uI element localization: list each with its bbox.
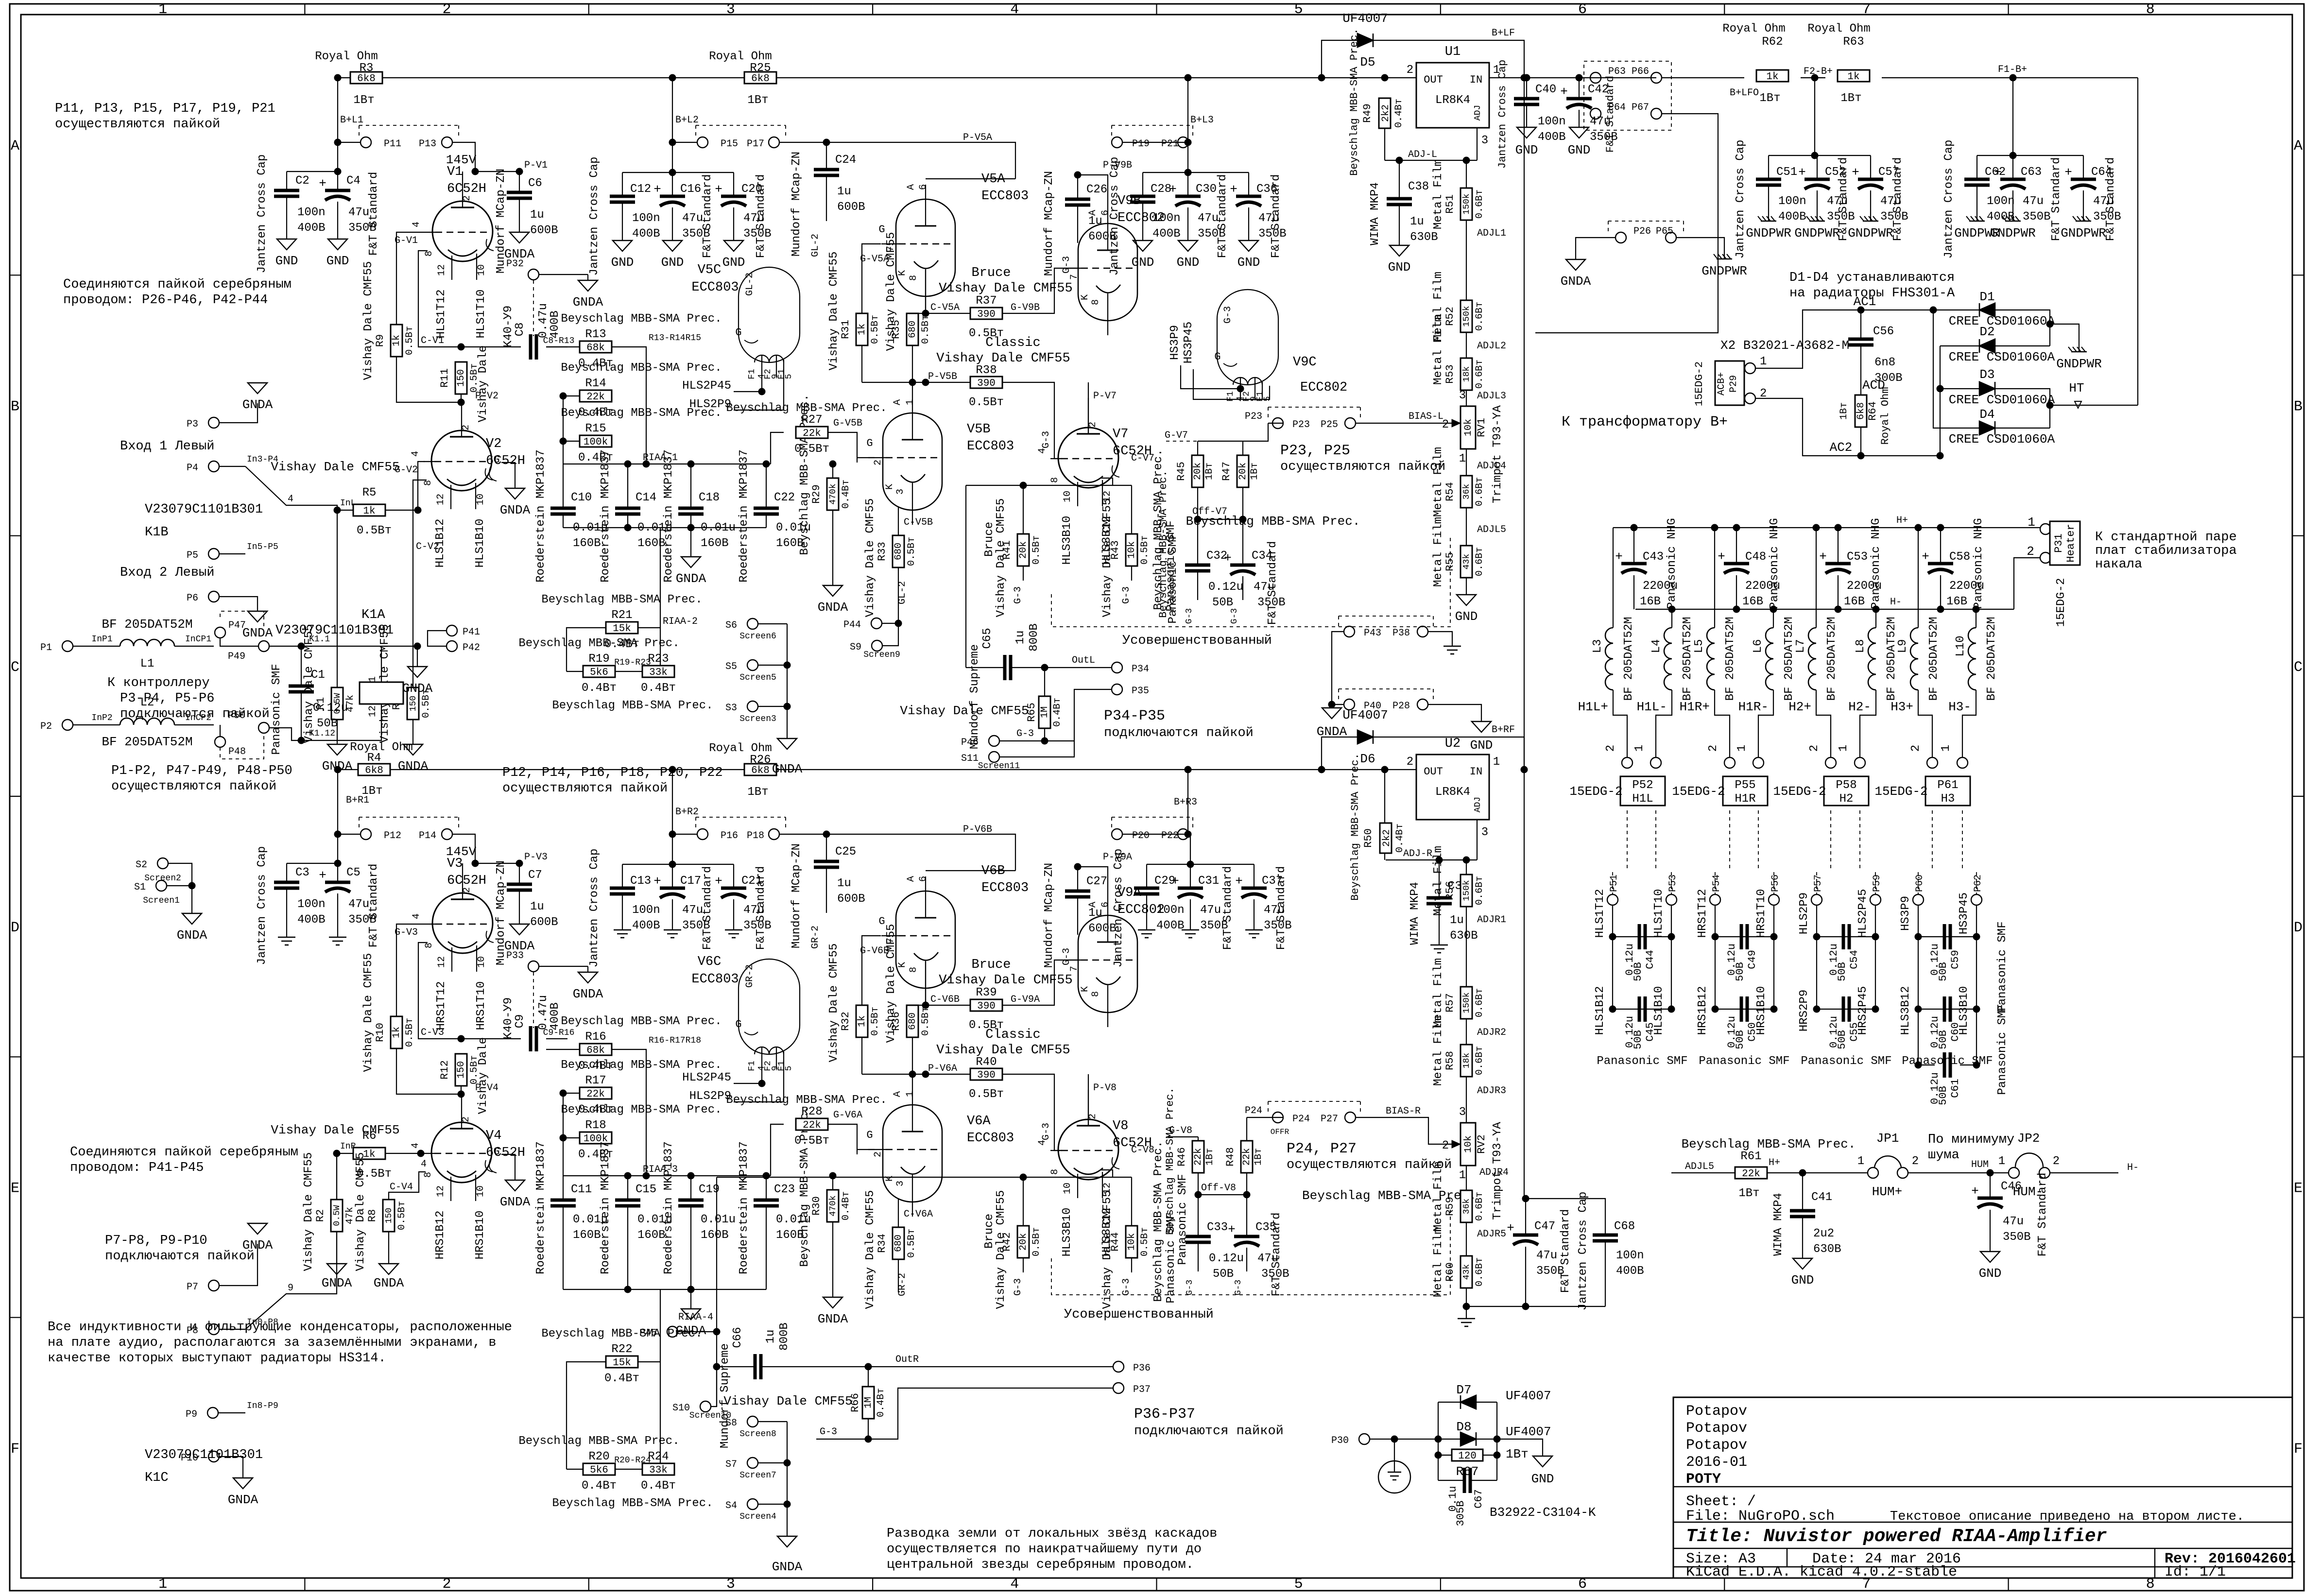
- svg-text:390: 390: [977, 1070, 996, 1081]
- svg-text:R23: R23: [648, 652, 669, 666]
- svg-text:C26: C26: [1086, 183, 1107, 196]
- svg-text:P7-P8, P9-P10: P7-P8, P9-P10: [105, 1234, 207, 1248]
- resistor R11: [455, 362, 467, 394]
- svg-text:Jantzen Cross Cap: Jantzen Cross Cap: [1577, 1192, 1590, 1311]
- resistor R49: [1379, 98, 1391, 128]
- capacitor C39: [1439, 860, 1440, 898]
- svg-text:Panasonic NHG: Panasonic NHG: [1870, 518, 1883, 609]
- svg-text:ADJR5: ADJR5: [1477, 1229, 1506, 1240]
- svg-text:Beyschlag MBB-SMA Prec.: Beyschlag MBB-SMA Prec.: [552, 699, 713, 712]
- svg-text:Mundorf MCap-ZN: Mundorf MCap-ZN: [790, 152, 803, 257]
- svg-text:R27: R27: [801, 413, 822, 427]
- capacitor C29: [1146, 864, 1147, 888]
- svg-text:G-V9A: G-V9A: [1011, 994, 1040, 1005]
- wire P14 to anode node: [452, 834, 475, 863]
- svg-text:10: 10: [1062, 491, 1073, 502]
- svg-text:P57: P57: [1813, 875, 1824, 892]
- svg-text:Metal Film: Metal Film: [1432, 447, 1445, 517]
- diode D6: [1322, 737, 1358, 770]
- svg-text:Royal Ohm: Royal Ohm: [1722, 22, 1786, 35]
- svg-text:D7: D7: [1456, 1383, 1471, 1397]
- svg-text:WIMA MKP4: WIMA MKP4: [1409, 882, 1422, 945]
- svg-text:Mundorf MCap-ZN: Mundorf MCap-ZN: [1043, 171, 1056, 276]
- svg-text:R34: R34: [876, 1234, 888, 1253]
- wire U1 out to P66: [1489, 77, 1656, 78]
- svg-text:0.01u: 0.01u: [701, 1213, 736, 1226]
- svg-text:S5: S5: [725, 661, 737, 672]
- svg-text:A: A: [11, 138, 19, 154]
- svg-text:JP2: JP2: [2017, 1131, 2040, 1146]
- svg-text:C46: C46: [2001, 1180, 2022, 1193]
- svg-text:V6C: V6C: [698, 955, 722, 969]
- pin P46: [989, 736, 999, 746]
- svg-text:6: 6: [918, 184, 929, 190]
- svg-text:680: 680: [907, 1013, 918, 1030]
- wire H1L- to pin: [1656, 707, 1672, 757]
- wire P57 column: [1816, 905, 1817, 1009]
- svg-text:0.47u: 0.47u: [537, 303, 550, 338]
- capacitor C11: [550, 1199, 576, 1202]
- svg-text:12: 12: [436, 264, 447, 276]
- capacitor C15: [627, 1176, 628, 1200]
- grid wire V6A: [857, 1149, 875, 1150]
- svg-text:D3: D3: [1979, 367, 1994, 382]
- svg-text:G-V9B: G-V9B: [1011, 302, 1040, 313]
- capacitor C55: [1817, 1009, 1875, 1010]
- svg-text:100n: 100n: [632, 904, 660, 917]
- svg-text:B32922-C3104-K: B32922-C3104-K: [1490, 1505, 1596, 1520]
- svg-text:BF 205DAT52M: BF 205DAT52M: [1783, 617, 1796, 701]
- pin P54: [1715, 872, 1716, 894]
- svg-text:GNDA: GNDA: [402, 681, 433, 696]
- anode wire V9A: [1078, 867, 1108, 901]
- wire OutR: [762, 1366, 1113, 1367]
- svg-text:G-3: G-3: [1013, 586, 1024, 604]
- junction D5 tap: [1318, 74, 1325, 82]
- svg-text:S10: S10: [672, 1403, 690, 1414]
- pin P10: [208, 1451, 219, 1462]
- svg-text:HLS1B12: HLS1B12: [1594, 986, 1607, 1035]
- svg-text:ECC803: ECC803: [981, 189, 1029, 204]
- cathode wire C-V7: [1101, 478, 1132, 485]
- svg-text:Id: 1/1: Id: 1/1: [2165, 1564, 2226, 1580]
- resistor R32: [856, 1005, 868, 1037]
- wire R13 out: [612, 347, 646, 464]
- svg-text:RIAA-2: RIAA-2: [663, 616, 698, 627]
- svg-text:C47: C47: [1534, 1220, 1555, 1233]
- svg-text:Potapov: Potapov: [1686, 1437, 1747, 1454]
- pin S11: [989, 752, 999, 762]
- resistor R64: [1855, 395, 1867, 427]
- svg-text:P51: P51: [1609, 875, 1620, 892]
- svg-text:D8: D8: [1456, 1420, 1471, 1434]
- svg-text:R51: R51: [1444, 194, 1456, 214]
- svg-text:V23079C1101B301: V23079C1101B301: [145, 502, 263, 517]
- svg-text:P63: P63: [1608, 66, 1626, 77]
- svg-text:R24: R24: [648, 1450, 669, 1463]
- svg-text:CREE CSD01060A: CREE CSD01060A: [1949, 314, 2055, 328]
- svg-text:GNDPWR: GNDPWR: [1794, 226, 1840, 240]
- svg-text:0.6Вт: 0.6Вт: [1474, 1192, 1485, 1221]
- svg-text:P48: P48: [228, 746, 246, 757]
- svg-text:22k: 22k: [586, 392, 605, 403]
- svg-text:Royal Ohm: Royal Ohm: [1879, 387, 1891, 445]
- svg-text:OFFR: OFFR: [1271, 1128, 1289, 1136]
- wire G-3 to R66: [816, 1439, 868, 1440]
- resistor R12: [455, 1054, 467, 1086]
- dashed pair P47 P49: [220, 611, 264, 627]
- svg-text:C13: C13: [630, 875, 651, 888]
- svg-text:D4: D4: [1979, 407, 1994, 422]
- svg-text:100n: 100n: [1987, 195, 2015, 208]
- capacitor C40: [1526, 78, 1527, 99]
- svg-text:C30: C30: [1196, 183, 1217, 196]
- pin P6: [208, 591, 219, 602]
- svg-text:R20: R20: [588, 1450, 609, 1463]
- svg-text:GNDA: GNDA: [228, 1493, 258, 1507]
- svg-text:Screen2: Screen2: [144, 874, 181, 883]
- svg-text:Bruce: Bruce: [983, 522, 996, 557]
- junction K1.1: [298, 643, 305, 650]
- svg-text:2: 2: [1912, 1155, 1919, 1168]
- svg-text:ADJL5: ADJL5: [1685, 1161, 1714, 1172]
- dashed box around P63-P67: [1584, 61, 1671, 130]
- svg-text:GND: GND: [1177, 255, 1200, 270]
- svg-text:150: 150: [456, 369, 467, 387]
- svg-text:10: 10: [475, 494, 486, 505]
- svg-text:C67: C67: [1473, 1489, 1485, 1509]
- svg-text:HLS2P9: HLS2P9: [689, 398, 731, 411]
- wire Off-V8 row: [1198, 1173, 1199, 1195]
- svg-text:H1L-: H1L-: [1637, 700, 1667, 714]
- svg-text:1: 1: [2028, 515, 2035, 530]
- pin P37: [1113, 1383, 1124, 1393]
- svg-text:BF 205DAT52M: BF 205DAT52M: [1622, 617, 1635, 701]
- svg-text:C11: C11: [571, 1183, 592, 1196]
- svg-text:Vishay Dale CMF55: Vishay Dale CMF55: [362, 953, 375, 1072]
- svg-text:Screen5: Screen5: [739, 673, 776, 683]
- svg-text:G: G: [866, 1129, 873, 1141]
- svg-text:BF 205DAT52M: BF 205DAT52M: [102, 617, 192, 632]
- svg-text:160B: 160B: [573, 537, 601, 550]
- capacitor C1: [301, 646, 302, 686]
- svg-text:H1R+: H1R+: [1680, 700, 1710, 714]
- svg-text:HLS2P45: HLS2P45: [682, 379, 731, 393]
- svg-text:Beyschlag MBB-SMA Prec.: Beyschlag MBB-SMA Prec.: [561, 1059, 722, 1072]
- svg-text:16B: 16B: [1946, 595, 1967, 608]
- capacitor C33: [1198, 1195, 1199, 1236]
- svg-text:R13: R13: [585, 328, 606, 341]
- svg-text:D1-D4 устанавливаются: D1-D4 устанавливаются: [1789, 271, 1955, 285]
- ground under caps: [286, 198, 287, 239]
- resistor R44: [1131, 1177, 1132, 1226]
- svg-text:16B: 16B: [1742, 595, 1763, 608]
- svg-text:160B: 160B: [701, 1229, 729, 1242]
- decoupling pins right: [1187, 78, 1188, 142]
- svg-text:8: 8: [2146, 1, 2155, 18]
- wire decoupling rail 3: [1187, 142, 1188, 172]
- svg-text:P38: P38: [1392, 628, 1410, 639]
- svg-text:50B: 50B: [1632, 962, 1644, 981]
- svg-text:HLS1T12: HLS1T12: [435, 290, 448, 339]
- svg-text:8: 8: [423, 1172, 434, 1178]
- svg-text:16B: 16B: [1844, 595, 1865, 608]
- svg-text:6: 6: [1578, 1, 1587, 18]
- svg-text:10: 10: [476, 264, 487, 276]
- svg-text:Vishay Dale CMF55: Vishay Dale CMF55: [302, 1152, 315, 1271]
- svg-text:D6: D6: [1360, 752, 1375, 766]
- wire P26 to GNDA: [1576, 238, 1615, 259]
- svg-text:0.4Вт: 0.4Вт: [1393, 99, 1405, 128]
- svg-text:подключаются пайкой: подключаются пайкой: [1104, 726, 1254, 740]
- svg-text:Beyschlag MBB-SMA Prec.: Beyschlag MBB-SMA Prec.: [561, 1015, 722, 1028]
- svg-text:Screen3: Screen3: [739, 714, 776, 724]
- svg-text:+: +: [1852, 165, 1859, 180]
- cathode C-V6A: [898, 1198, 899, 1227]
- svg-text:JP1: JP1: [1876, 1131, 1899, 1146]
- svg-text:50B: 50B: [1836, 1030, 1848, 1049]
- svg-text:G-3: G-3: [1185, 608, 1194, 624]
- wire R38 to V7 grid: [1002, 382, 1062, 459]
- capacitor C63: [2012, 155, 2013, 179]
- wire HT to vertical: [2050, 405, 2138, 406]
- svg-text:V6A: V6A: [967, 1114, 991, 1129]
- svg-text:P49: P49: [228, 651, 245, 662]
- junction AC1 C56: [1857, 307, 1865, 314]
- svg-text:+: +: [1971, 1184, 1979, 1199]
- svg-text:P5: P5: [187, 550, 198, 561]
- svg-text:Beyschlag MBB-SMA Prec.: Beyschlag MBB-SMA Prec.: [726, 1094, 887, 1107]
- capacitor C21: [733, 864, 734, 888]
- svg-text:22k: 22k: [586, 1089, 605, 1100]
- resistor R42: [1023, 1177, 1024, 1226]
- svg-text:0.5Вт: 0.5Вт: [870, 1007, 881, 1036]
- svg-text:F&T Standard: F&T Standard: [367, 864, 380, 948]
- svg-text:CREE CSD01060A: CREE CSD01060A: [1949, 393, 2055, 407]
- dual triode V9A ECC802: [1078, 915, 1137, 1013]
- screen pins to GNDA: [787, 624, 788, 738]
- svg-text:C7: C7: [528, 869, 542, 882]
- wire p-v5b row: [862, 382, 970, 383]
- svg-text:15EDG-2: 15EDG-2: [1569, 784, 1622, 799]
- capacitor C16: [672, 172, 673, 196]
- svg-text:P66: P66: [1632, 66, 1649, 77]
- svg-text:8: 8: [908, 967, 919, 973]
- svg-text:3: 3: [726, 1576, 735, 1593]
- svg-text:HRS1B12: HRS1B12: [434, 1211, 447, 1260]
- svg-text:GND: GND: [661, 255, 684, 270]
- svg-text:Beyschlag MBB-SMA Prec.: Beyschlag MBB-SMA Prec.: [561, 361, 722, 375]
- svg-text:осуществляются пайкой: осуществляются пайкой: [111, 779, 276, 794]
- svg-text:5k6: 5k6: [590, 667, 608, 678]
- svg-text:1: 1: [1760, 355, 1767, 368]
- svg-text:1: 1: [1998, 1155, 2005, 1168]
- svg-text:F&T Standard: F&T Standard: [1837, 157, 1850, 241]
- svg-text:OutR: OutR: [895, 1354, 919, 1365]
- svg-text:BF 205DAT52M: BF 205DAT52M: [1724, 617, 1737, 701]
- svg-text:100k: 100k: [584, 437, 608, 448]
- svg-text:осуществляются пайкой: осуществляются пайкой: [1287, 1158, 1452, 1172]
- svg-text:C50: C50: [1746, 1022, 1758, 1042]
- anode stub lower tube: [461, 1094, 462, 1095]
- svg-text:HRS1T10: HRS1T10: [475, 981, 488, 1030]
- capacitor C7: [519, 863, 520, 884]
- svg-text:Mundorf MCap-ZN: Mundorf MCap-ZN: [790, 843, 803, 948]
- svg-text:Mundorf Supreme: Mundorf Supreme: [968, 644, 981, 749]
- svg-text:R14: R14: [585, 377, 606, 390]
- svg-text:400B: 400B: [632, 919, 660, 932]
- svg-text:47u: 47u: [1200, 904, 1221, 917]
- svg-text:+: +: [1507, 1221, 1514, 1236]
- svg-text:1k: 1k: [391, 1027, 402, 1038]
- resistor R1: [337, 510, 338, 687]
- svg-text:6C52H: 6C52H: [486, 1146, 525, 1160]
- svg-text:К стандартной паре: К стандартной паре: [2095, 530, 2237, 545]
- svg-text:Bruce: Bruce: [971, 266, 1011, 280]
- svg-text:G: G: [1214, 351, 1220, 363]
- svg-text:GND: GND: [1388, 260, 1411, 275]
- svg-text:GL-2: GL-2: [744, 273, 756, 296]
- svg-text:2: 2: [1442, 418, 1449, 431]
- svg-text:Title: Nuvistor powered RIAA-A: Title: Nuvistor powered RIAA-Amplifier: [1686, 1526, 2107, 1547]
- svg-text:Screen6: Screen6: [739, 632, 776, 641]
- svg-text:BF 205DAT52M: BF 205DAT52M: [1927, 617, 1941, 701]
- svg-text:HT: HT: [2069, 381, 2084, 395]
- svg-text:C66: C66: [731, 1327, 744, 1348]
- wire R61 to JP1: [1767, 1172, 1868, 1173]
- svg-text:1u: 1u: [1088, 215, 1102, 228]
- resistor R43: [1131, 485, 1132, 534]
- svg-text:F: F: [2294, 1441, 2303, 1458]
- svg-text:UF4007: UF4007: [1506, 1389, 1551, 1403]
- wire P56 column: [1773, 905, 1774, 1009]
- svg-text:F&T Standard: F&T Standard: [701, 174, 714, 258]
- svg-text:470k: 470k: [828, 483, 838, 504]
- capacitor C42: [1579, 78, 1580, 99]
- svg-text:6k8: 6k8: [1856, 402, 1867, 420]
- svg-text:8: 8: [1090, 299, 1101, 305]
- svg-text:Metal Film: Metal Film: [1432, 846, 1445, 916]
- svg-text:CREE CSD01060A: CREE CSD01060A: [1949, 432, 2055, 446]
- svg-text:2k2: 2k2: [1381, 829, 1392, 847]
- junction F1-B+: [2010, 74, 2017, 82]
- svg-text:P47: P47: [228, 620, 246, 631]
- wire InR diagonal: [245, 1294, 301, 1329]
- svg-text:Screen7: Screen7: [739, 1471, 776, 1480]
- svg-text:GNDA: GNDA: [322, 1276, 352, 1290]
- svg-text:6k8: 6k8: [357, 73, 376, 85]
- svg-text:P13: P13: [419, 138, 436, 150]
- svg-text:C56: C56: [1873, 325, 1894, 338]
- pin S3: [747, 701, 758, 712]
- svg-text:R16-R17R18: R16-R17R18: [649, 1036, 701, 1046]
- svg-text:680: 680: [893, 1235, 904, 1252]
- wire P59 column: [1875, 905, 1876, 1009]
- wire ADJ-L: [1385, 160, 1477, 161]
- svg-text:ECC802: ECC802: [1300, 380, 1347, 395]
- svg-text:6: 6: [918, 876, 929, 882]
- svg-text:0.5Вт: 0.5Вт: [1139, 1227, 1151, 1256]
- svg-text:400B: 400B: [549, 1002, 562, 1030]
- svg-text:8: 8: [423, 480, 434, 486]
- wire riaa bottom rail: [563, 527, 766, 528]
- svg-text:R9: R9: [374, 334, 386, 347]
- trimpot RV2: [1461, 1123, 1476, 1166]
- svg-text:R8: R8: [366, 1209, 378, 1222]
- svg-text:P37: P37: [1133, 1384, 1151, 1395]
- svg-text:GNDA: GNDA: [1317, 724, 1347, 739]
- wire r35 connections: [912, 1005, 926, 1006]
- svg-text:Vishay Dale: Vishay Dale: [477, 345, 490, 422]
- svg-text:ADJR1: ADJR1: [1477, 914, 1506, 926]
- svg-text:10: 10: [475, 1185, 486, 1197]
- capacitor C10: [550, 507, 576, 510]
- svg-text:E: E: [11, 1181, 19, 1197]
- svg-text:2: 2: [1087, 1114, 1099, 1119]
- svg-text:GR-2: GR-2: [810, 926, 821, 949]
- svg-text:+: +: [1718, 549, 1725, 564]
- inductor L8: [1875, 609, 1876, 628]
- resistor R41: [1023, 485, 1024, 534]
- coupling capacitor C9: [461, 1038, 521, 1039]
- svg-text:ECC803: ECC803: [981, 881, 1029, 895]
- svg-text:P18: P18: [747, 830, 764, 841]
- svg-text:1u: 1u: [530, 900, 544, 913]
- svg-text:P52: P52: [1632, 779, 1653, 792]
- svg-text:Beyschlag MBB-SMA Prec.: Beyschlag MBB-SMA Prec.: [561, 312, 722, 326]
- svg-text:4: 4: [410, 1143, 421, 1149]
- svg-text:шума: шума: [1928, 1148, 1959, 1163]
- svg-text:8: 8: [424, 943, 435, 948]
- svg-text:HLS3B12: HLS3B12: [1899, 986, 1912, 1035]
- svg-text:Vishay Dale CMF55: Vishay Dale CMF55: [827, 944, 841, 1063]
- svg-text:Heater: Heater: [2065, 524, 2077, 562]
- svg-text:P-V3: P-V3: [524, 852, 548, 863]
- svg-text:Classic: Classic: [985, 336, 1040, 350]
- svg-text:0.4Вт: 0.4Вт: [582, 682, 617, 695]
- svg-text:B+L2: B+L2: [675, 115, 699, 126]
- svg-text:A: A: [906, 876, 917, 882]
- svg-text:1Вт: 1Вт: [1738, 1187, 1759, 1200]
- svg-text:20k: 20k: [1192, 463, 1203, 480]
- svg-text:GR-2: GR-2: [744, 964, 756, 988]
- pin P42: [447, 641, 457, 652]
- svg-text:P56: P56: [1770, 875, 1781, 892]
- svg-text:22k: 22k: [1193, 1148, 1204, 1166]
- svg-text:R53: R53: [1444, 364, 1456, 384]
- svg-text:150: 150: [456, 1061, 467, 1079]
- pin P45: [667, 1326, 678, 1337]
- svg-text:P44: P44: [843, 619, 861, 631]
- svg-text:0.5Вт: 0.5Вт: [1031, 1227, 1042, 1256]
- svg-text:R31: R31: [840, 320, 852, 339]
- inductor L9: [1918, 528, 1919, 628]
- svg-text:HS3P9: HS3P9: [1899, 896, 1912, 931]
- svg-text:WIMA MKP4: WIMA MKP4: [1772, 1193, 1785, 1256]
- svg-text:C10: C10: [571, 491, 592, 504]
- svg-text:2: 2: [461, 425, 472, 430]
- svg-text:H1R-: H1R-: [1738, 700, 1769, 714]
- svg-text:P12: P12: [384, 830, 401, 841]
- svg-text:G-3: G-3: [1234, 1280, 1243, 1295]
- svg-text:Panasonic SMF: Panasonic SMF: [1996, 921, 2009, 1012]
- svg-text:400B: 400B: [1538, 131, 1566, 144]
- wire B+ top bus: [338, 77, 1416, 78]
- svg-text:18k: 18k: [1462, 1053, 1472, 1068]
- svg-text:4: 4: [411, 913, 422, 919]
- svg-text:BF 205DAT52M: BF 205DAT52M: [1885, 617, 1898, 701]
- svg-text:G-V7: G-V7: [1165, 430, 1188, 441]
